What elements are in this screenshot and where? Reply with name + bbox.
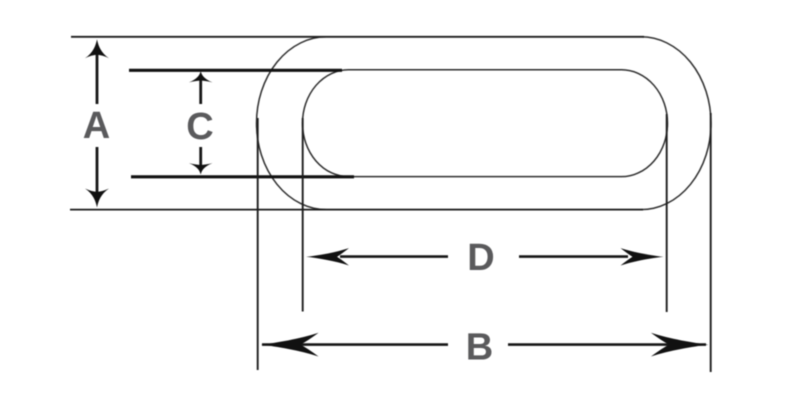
svg-text:D: D [467, 237, 494, 279]
dimension A shaft [96, 48, 99, 199]
adjacent link top outer line [71, 36, 644, 38]
dimension D shaft [340, 255, 628, 258]
dimension C arrowhead down [189, 163, 213, 174]
svg-text:B: B [466, 326, 493, 368]
adjacent link top inner line (thick) [129, 69, 342, 72]
extension line D left [302, 118, 304, 312]
dimension C shaft [199, 76, 202, 170]
extension line B right [710, 113, 712, 372]
chain link outer profile [257, 37, 712, 210]
dimension B shaft [262, 343, 706, 346]
dimension D arrowhead right [621, 248, 664, 265]
extension line B left [257, 118, 259, 370]
dimension B arrowhead right [651, 333, 709, 357]
chain link inner profile [303, 70, 668, 177]
adjacent link bottom outer line [70, 209, 643, 211]
svg-text:C: C [186, 106, 213, 148]
dimension B arrowhead left [261, 333, 319, 357]
svg-text:A: A [83, 105, 110, 147]
dimension C arrowhead up [189, 71, 213, 82]
dimension D arrowhead left [306, 248, 349, 265]
extension line D right [666, 114, 668, 312]
dimension A arrowhead up [85, 39, 109, 58]
adjacent link bottom inner line (thick) [131, 175, 354, 178]
dimension A arrowhead down [85, 189, 109, 208]
